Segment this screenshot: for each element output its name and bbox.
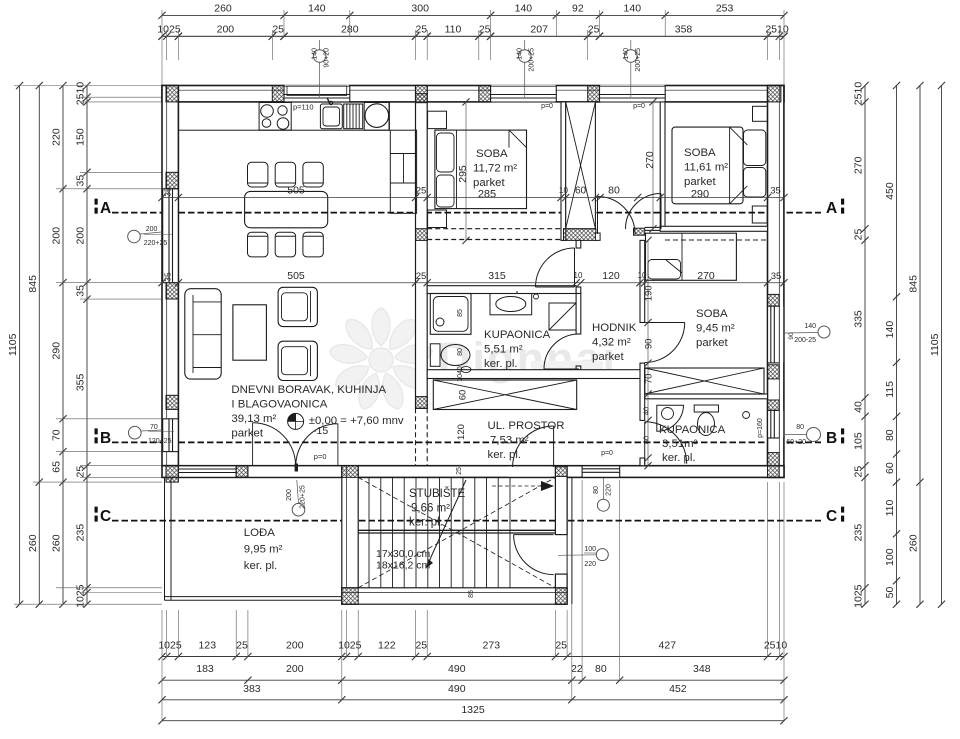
svg-text:35: 35 <box>75 175 87 187</box>
svg-text:123: 123 <box>199 640 217 652</box>
svg-text:92: 92 <box>572 2 584 14</box>
svg-text:35: 35 <box>163 272 173 282</box>
svg-text:80: 80 <box>593 486 600 494</box>
svg-text:60: 60 <box>575 186 587 197</box>
svg-text:1325: 1325 <box>461 704 485 716</box>
svg-text:40: 40 <box>853 401 865 413</box>
svg-text:490: 490 <box>448 683 466 695</box>
svg-text:295: 295 <box>457 165 469 183</box>
svg-text:220: 220 <box>51 128 63 146</box>
svg-text:300: 300 <box>411 2 429 14</box>
svg-text:10: 10 <box>638 271 647 280</box>
svg-text:140: 140 <box>623 48 630 60</box>
svg-text:p=0: p=0 <box>601 450 613 457</box>
svg-text:100: 100 <box>884 548 896 566</box>
svg-text:9,45 m²: 9,45 m² <box>696 323 735 335</box>
svg-text:7,53 m²: 7,53 m² <box>490 435 529 447</box>
svg-text:DNEVNI BORAVAK, KUHINJA: DNEVNI BORAVAK, KUHINJA <box>231 384 386 396</box>
svg-text:3,51m²: 3,51m² <box>662 438 698 450</box>
svg-text:SOBA: SOBA <box>684 147 716 159</box>
svg-text:200-25: 200-25 <box>794 337 816 344</box>
svg-text:100: 100 <box>584 546 596 553</box>
svg-text:39,13 m²: 39,13 m² <box>231 413 276 425</box>
svg-text:ker. pl.: ker. pl. <box>244 560 278 572</box>
svg-text:1105: 1105 <box>7 333 19 356</box>
svg-text:parket: parket <box>473 177 505 189</box>
svg-text:140: 140 <box>515 2 533 14</box>
svg-text:25: 25 <box>853 466 865 478</box>
svg-text:A: A <box>100 200 111 217</box>
svg-text:35: 35 <box>771 271 782 282</box>
svg-text:450: 450 <box>884 182 896 200</box>
svg-text:90: 90 <box>788 332 795 340</box>
svg-text:25: 25 <box>415 640 427 652</box>
svg-text:200: 200 <box>286 489 293 501</box>
svg-text:9,95 m²: 9,95 m² <box>244 544 283 556</box>
svg-text:200: 200 <box>286 640 304 652</box>
svg-text:ker. pl.: ker. pl. <box>488 449 522 461</box>
svg-text:505: 505 <box>287 270 305 282</box>
svg-text:140: 140 <box>308 2 326 14</box>
svg-text:KUPAONICA: KUPAONICA <box>484 329 551 341</box>
svg-text:200: 200 <box>51 227 63 245</box>
svg-text:220+25: 220+25 <box>144 240 168 247</box>
svg-text:80: 80 <box>642 436 651 444</box>
svg-text:ker. pl.: ker. pl. <box>409 517 443 529</box>
svg-text:p=160: p=160 <box>757 418 764 438</box>
svg-text:40: 40 <box>642 407 651 415</box>
svg-text:parket: parket <box>696 337 728 349</box>
svg-text:200+25: 200+25 <box>635 48 642 72</box>
svg-text:C: C <box>100 508 111 525</box>
svg-text:85: 85 <box>457 309 464 317</box>
svg-text:200: 200 <box>217 23 235 35</box>
svg-text:358: 358 <box>675 23 693 35</box>
svg-text:SOBA: SOBA <box>696 308 728 320</box>
svg-text:p=110: p=110 <box>293 103 314 112</box>
svg-text:25: 25 <box>479 23 491 35</box>
svg-text:STUBIŠTE: STUBIŠTE <box>409 487 466 500</box>
svg-text:273: 273 <box>483 640 501 652</box>
svg-text:25: 25 <box>416 186 427 197</box>
svg-text:25: 25 <box>415 23 427 35</box>
svg-text:260: 260 <box>214 2 232 14</box>
svg-text:120: 120 <box>456 424 467 440</box>
svg-text:-15: -15 <box>313 425 328 437</box>
svg-text:235: 235 <box>853 524 865 542</box>
svg-text:70: 70 <box>150 424 158 431</box>
svg-text:parket: parket <box>231 428 263 440</box>
svg-text:348: 348 <box>693 663 711 675</box>
svg-text:90+20: 90+20 <box>324 48 331 68</box>
svg-text:4,32 m²: 4,32 m² <box>592 337 631 349</box>
svg-text:355: 355 <box>75 373 87 391</box>
svg-text:335: 335 <box>853 310 865 328</box>
svg-text:I BLAGOVAONICA: I BLAGOVAONICA <box>231 399 327 411</box>
svg-text:285: 285 <box>478 189 496 201</box>
svg-text:260: 260 <box>908 534 920 552</box>
svg-text:60+20: 60+20 <box>786 439 806 446</box>
svg-text:p=0: p=0 <box>541 103 553 110</box>
svg-text:120+25: 120+25 <box>148 438 172 445</box>
svg-text:122: 122 <box>378 640 396 652</box>
svg-text:65: 65 <box>51 461 63 473</box>
svg-text:25: 25 <box>272 23 284 35</box>
svg-text:200+25: 200+25 <box>529 48 536 72</box>
svg-text:80: 80 <box>608 185 620 197</box>
svg-text:parket: parket <box>684 176 716 188</box>
svg-text:290: 290 <box>51 342 63 360</box>
svg-text:427: 427 <box>659 640 677 652</box>
svg-text:25: 25 <box>555 640 567 652</box>
svg-text:505: 505 <box>287 185 305 197</box>
svg-text:9,66 m²: 9,66 m² <box>411 503 450 515</box>
svg-text:140: 140 <box>312 48 319 60</box>
svg-text:60: 60 <box>458 390 469 401</box>
svg-text:p=0: p=0 <box>633 103 645 110</box>
svg-text:115: 115 <box>884 381 896 398</box>
svg-text:1025: 1025 <box>157 23 181 35</box>
svg-text:B: B <box>826 430 837 447</box>
svg-text:190: 190 <box>643 285 654 301</box>
svg-text:A: A <box>826 200 837 217</box>
svg-text:200: 200 <box>286 663 304 675</box>
svg-text:845: 845 <box>908 275 920 293</box>
svg-text:220: 220 <box>584 561 596 568</box>
svg-text:200: 200 <box>75 227 87 245</box>
svg-text:5,51 m²: 5,51 m² <box>484 344 523 356</box>
svg-text:ker. pl.: ker. pl. <box>662 452 696 464</box>
svg-text:220+25: 220+25 <box>300 485 307 509</box>
svg-text:270: 270 <box>853 156 865 174</box>
svg-text:parket: parket <box>592 351 624 363</box>
svg-text:25: 25 <box>456 467 463 475</box>
svg-text:80: 80 <box>595 663 607 675</box>
svg-text:1040: 1040 <box>457 366 464 382</box>
svg-text:2510: 2510 <box>765 23 789 35</box>
svg-text:140: 140 <box>517 48 524 60</box>
svg-text:253: 253 <box>716 2 734 14</box>
svg-text:UL. PROSTOR: UL. PROSTOR <box>488 420 565 432</box>
svg-text:LOĐA: LOĐA <box>244 527 275 539</box>
svg-text:140: 140 <box>624 2 642 14</box>
svg-text:140: 140 <box>884 321 896 339</box>
svg-text:25: 25 <box>588 23 600 35</box>
svg-text:207: 207 <box>530 23 548 35</box>
svg-text:10: 10 <box>559 186 568 195</box>
svg-text:200: 200 <box>146 226 158 233</box>
svg-text:SOBA: SOBA <box>476 148 508 160</box>
svg-text:270: 270 <box>697 270 715 282</box>
svg-text:290: 290 <box>691 189 709 201</box>
svg-text:C: C <box>826 508 837 525</box>
svg-text:140: 140 <box>804 323 816 330</box>
svg-text:22: 22 <box>571 663 583 675</box>
svg-text:25: 25 <box>416 271 427 282</box>
svg-text:35: 35 <box>163 187 173 197</box>
svg-text:85: 85 <box>468 590 475 598</box>
svg-text:80: 80 <box>457 348 464 356</box>
svg-text:25: 25 <box>75 466 87 478</box>
svg-text:1025: 1025 <box>853 584 865 608</box>
svg-text:HODNIK: HODNIK <box>592 322 637 334</box>
svg-text:105: 105 <box>853 432 865 450</box>
svg-text:90: 90 <box>643 339 654 350</box>
svg-text:80: 80 <box>796 424 804 431</box>
svg-text:25: 25 <box>236 640 248 652</box>
svg-text:80: 80 <box>884 429 896 441</box>
svg-text:220: 220 <box>606 484 613 496</box>
svg-text:25: 25 <box>853 229 865 241</box>
svg-text:183: 183 <box>196 663 214 675</box>
svg-text:845: 845 <box>27 275 39 293</box>
svg-text:ker. pl.: ker. pl. <box>484 358 518 370</box>
svg-text:11,72 m²: 11,72 m² <box>473 163 517 175</box>
svg-text:70: 70 <box>51 429 63 441</box>
svg-text:260: 260 <box>27 534 39 552</box>
svg-text:1105: 1105 <box>929 333 941 356</box>
svg-text:120: 120 <box>602 270 620 282</box>
svg-text:235: 235 <box>75 524 87 542</box>
svg-text:10: 10 <box>574 271 583 280</box>
svg-text:p=0: p=0 <box>314 452 327 461</box>
svg-text:11,61 m²: 11,61 m² <box>684 162 728 174</box>
svg-text:50: 50 <box>884 587 896 599</box>
svg-text:35: 35 <box>75 285 87 297</box>
svg-text:150: 150 <box>75 128 87 146</box>
svg-text:18x16,2 cm: 18x16,2 cm <box>376 560 431 572</box>
svg-text:17x30,0 cm: 17x30,0 cm <box>376 548 431 560</box>
svg-text:KUPAONICA: KUPAONICA <box>659 424 726 436</box>
svg-text:B: B <box>100 430 111 447</box>
svg-text:35: 35 <box>770 186 781 197</box>
svg-text:315: 315 <box>488 270 506 282</box>
svg-text:110: 110 <box>445 23 462 35</box>
svg-text:110: 110 <box>884 499 896 516</box>
svg-text:452: 452 <box>669 683 687 695</box>
svg-text:383: 383 <box>243 683 261 695</box>
svg-text:2510: 2510 <box>853 82 865 106</box>
svg-text:60: 60 <box>884 462 896 474</box>
svg-text:260: 260 <box>51 534 63 552</box>
svg-text:490: 490 <box>448 663 466 675</box>
svg-text:270: 270 <box>644 151 656 169</box>
